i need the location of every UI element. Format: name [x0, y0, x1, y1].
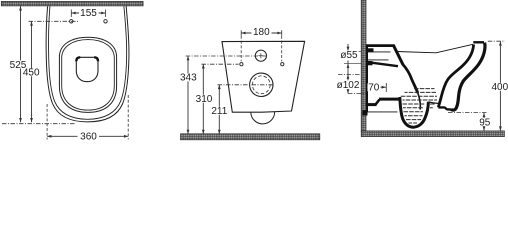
svg-text:180: 180	[253, 27, 270, 38]
svg-text:95: 95	[479, 117, 491, 128]
svg-text:ø102: ø102	[337, 80, 360, 91]
svg-text:ø55: ø55	[340, 50, 358, 61]
svg-text:360: 360	[80, 132, 97, 143]
svg-text:343: 343	[180, 73, 197, 84]
svg-text:155: 155	[80, 8, 97, 19]
svg-text:211: 211	[211, 106, 227, 117]
svg-text:450: 450	[23, 68, 40, 79]
svg-text:400: 400	[491, 82, 508, 93]
svg-text:70: 70	[368, 83, 380, 94]
svg-text:310: 310	[196, 94, 213, 105]
